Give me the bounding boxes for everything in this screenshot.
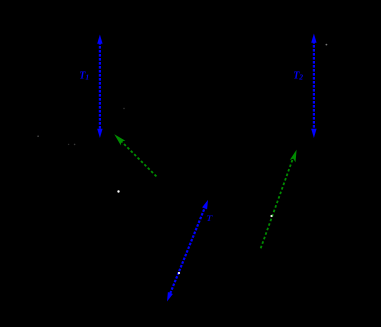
faint dot d <box>123 108 124 109</box>
faint dot b <box>74 144 76 146</box>
white point marker (isolated, left) <box>117 190 119 192</box>
white point marker on green arrow r2 <box>270 215 272 217</box>
faint gray point marker (top right) <box>326 44 328 46</box>
arrow T2 (right vertical blue double-headed dashed arrow) <box>311 34 316 139</box>
white point marker on arrow T <box>178 272 180 274</box>
svg-text:T2: T2 <box>293 70 303 81</box>
green arrow r1 (left, pointing up-left) <box>114 134 156 176</box>
arrow T (central blue double-headed dashed arrow, slanted) <box>167 200 208 302</box>
green arrow r2 (right, pointing up-right) <box>261 150 297 249</box>
svg-text:T1: T1 <box>79 70 89 81</box>
faint dot c <box>68 144 69 145</box>
arrow T1 (left vertical blue double-headed dashed arrow) <box>97 35 102 139</box>
faint dot a <box>37 135 39 137</box>
